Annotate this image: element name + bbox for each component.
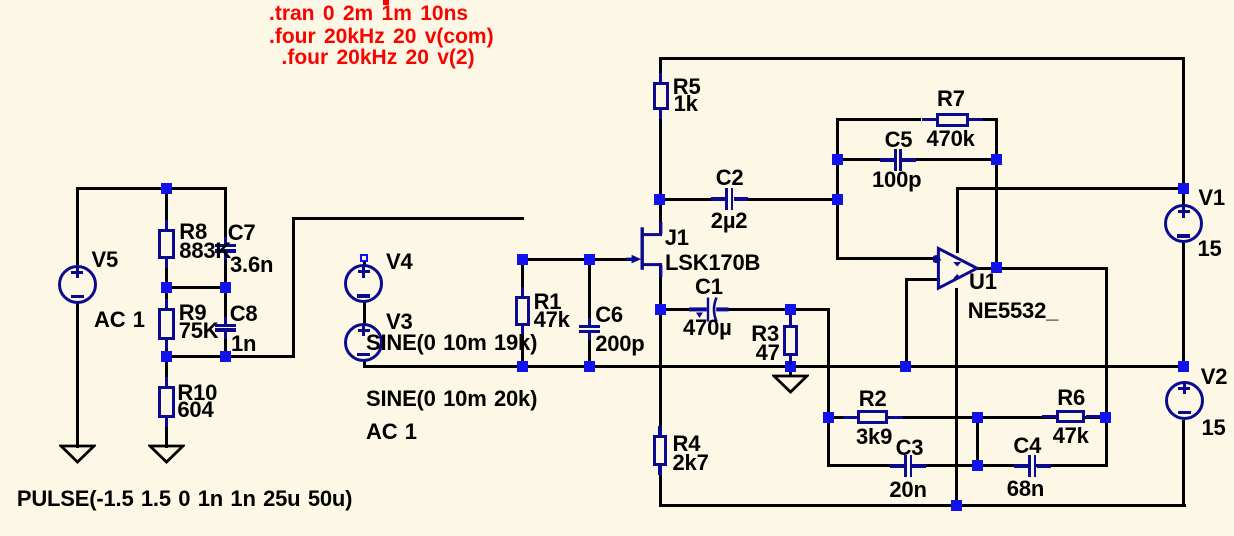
- resistor R8: [165, 220, 168, 229]
- label R3 value: [756, 342, 780, 364]
- label C7 name: [228, 222, 256, 244]
- wire top supply rail: [659, 57, 1185, 60]
- label C8 name: [230, 303, 258, 325]
- voltage source V4: [344, 264, 383, 303]
- voltage source V5 circle: [58, 265, 97, 304]
- wire ground mid rail: [363, 365, 1186, 368]
- capacitor C1 polarized: [689, 295, 733, 325]
- label U1 name: [969, 271, 997, 293]
- label V3 ac value: [366, 421, 417, 443]
- wire rail to C7: [224, 187, 227, 245]
- wire C2 row right: [734, 198, 839, 201]
- node C3-link: [972, 460, 983, 471]
- node R2 left: [823, 412, 834, 423]
- wire C1 row left: [659, 308, 693, 311]
- label C3 value: [889, 479, 926, 501]
- wire opamp V- pin drop: [955, 288, 958, 508]
- node R8-R9 left: [161, 282, 172, 293]
- wire input riser: [292, 217, 295, 359]
- label R8 value: [179, 240, 231, 262]
- wire R6 row right: [1085, 416, 1108, 419]
- node C7-C8 right: [220, 282, 231, 293]
- wire opamp output row: [977, 267, 1108, 270]
- wire feedback left vertical: [836, 118, 839, 260]
- wire C7 to C8: [224, 253, 227, 325]
- voltage source V3: [344, 323, 383, 362]
- node drain-C2: [654, 194, 665, 205]
- label C5 value: [872, 169, 921, 191]
- voltage source V1: [1164, 204, 1203, 243]
- V4 open terminal marker: [360, 254, 368, 262]
- node source-C1: [655, 304, 666, 315]
- resistor R7: [922, 118, 936, 121]
- label V5 pulse value: [17, 488, 352, 510]
- label R10 name: [177, 382, 217, 404]
- voltage source V2: [1165, 381, 1204, 420]
- ground (R10): [148, 444, 185, 466]
- wire inverting input row: [836, 257, 937, 260]
- wire R10 to ground: [165, 417, 168, 448]
- label V1 value: [1198, 238, 1222, 260]
- label R3 name: [751, 323, 779, 345]
- resistor R2: [843, 416, 857, 419]
- wire C8 to junction row: [224, 332, 227, 359]
- node gate row R1: [517, 254, 528, 265]
- label C1 value: [683, 317, 732, 339]
- label R5 value: [674, 93, 698, 115]
- label C5 name: [885, 129, 913, 151]
- wire C5 row left: [836, 158, 894, 161]
- resistor R6: [1042, 415, 1056, 418]
- node R6 right: [1100, 412, 1111, 423]
- capacitor C6: [588, 318, 591, 325]
- node Vminus bottom rail: [951, 500, 962, 511]
- label V2 value: [1202, 417, 1226, 439]
- node opamp output: [991, 262, 1002, 273]
- label U1 value: [968, 300, 1058, 322]
- wire gate node to R1: [521, 258, 524, 298]
- node C5 right: [991, 154, 1002, 165]
- label C4 value: [1007, 478, 1044, 500]
- label R5 name: [673, 76, 701, 98]
- capacitor C2: [711, 197, 725, 201]
- label R2 name: [859, 388, 887, 410]
- label C8 value: [231, 333, 256, 355]
- node C1-R3: [785, 304, 796, 315]
- wire R8 to R9: [165, 259, 168, 310]
- label R6 name: [1057, 387, 1085, 409]
- label V5 value: [94, 309, 145, 331]
- wire C3 row left: [827, 464, 903, 467]
- node R9-R10 left: [161, 351, 172, 362]
- label C3 name: [896, 437, 924, 459]
- wire gate row: [521, 258, 633, 261]
- node R2-link: [972, 412, 983, 423]
- label C6 name: [595, 304, 623, 326]
- wire C6 to rail: [588, 333, 591, 369]
- label C7 value: [230, 254, 273, 276]
- label C6 value: [595, 333, 644, 355]
- wire top rail to R5: [659, 57, 662, 83]
- wire V2 to bottom rail: [1182, 420, 1185, 508]
- label J1 value: [665, 252, 760, 274]
- wire R9 to R10: [165, 339, 168, 388]
- wire R5 to drain node: [659, 109, 662, 201]
- spice directive .tran: [269, 3, 468, 24]
- wire C3-C4 row mid: [913, 464, 1029, 467]
- wire C1 node to R3: [789, 308, 792, 327]
- label R6 value: [1053, 425, 1089, 447]
- wire R3 to rail: [789, 355, 792, 368]
- wire R2 row mid: [887, 416, 1058, 419]
- capacitor C4: [1014, 464, 1028, 468]
- label V4 name: [386, 251, 413, 273]
- node gate row C6: [584, 254, 595, 265]
- wire R2 row left: [827, 416, 859, 419]
- wire V3 to rail: [363, 361, 366, 369]
- wire V1 top: [1182, 57, 1185, 206]
- wire input top run: [292, 217, 524, 220]
- node rail-R8: [161, 183, 172, 194]
- label C1 name: [695, 276, 723, 298]
- spice directive clipped fragment: [383, 0, 389, 5]
- wire rail to R8: [165, 187, 168, 231]
- wire noninverting riser: [905, 278, 908, 368]
- wire feedback top left: [836, 118, 921, 121]
- label V3 value: [366, 332, 537, 354]
- node R3 ground: [785, 361, 796, 372]
- wire R2-C3 link: [976, 416, 979, 468]
- label R4 name: [673, 433, 701, 455]
- wire V4 top stub: [363, 262, 366, 267]
- label R9 name: [179, 302, 207, 324]
- wire feedback right vertical: [995, 118, 998, 270]
- wire C5 row right: [902, 158, 998, 161]
- node C5 left: [832, 154, 843, 165]
- node V1-V2: [1178, 361, 1189, 372]
- resistor R5: [659, 73, 662, 82]
- wire junction row R8-C7: [165, 286, 228, 289]
- spice directive .four v(2): [282, 47, 475, 68]
- wire V4 to V3: [363, 302, 366, 324]
- node noninv rail: [900, 361, 911, 372]
- wire R4 to bottom rail: [659, 465, 662, 507]
- node rail R1: [517, 361, 528, 372]
- resistor R3: [789, 316, 792, 325]
- ground (V5): [59, 444, 96, 466]
- label C2 name: [716, 167, 744, 189]
- resistor R9: [165, 299, 168, 308]
- label V4 value: [366, 388, 537, 410]
- node rail C6: [584, 361, 595, 372]
- wire V1 to V2 node: [1182, 242, 1185, 368]
- resistor R4: [658, 426, 661, 435]
- wire output riser: [1105, 267, 1108, 468]
- wire C1 to C3 riser: [827, 308, 830, 467]
- resistor R1: [521, 287, 524, 296]
- wire gate node to C6: [588, 258, 591, 326]
- label R7 name: [937, 88, 965, 110]
- label V2 name: [1201, 366, 1228, 388]
- label C4 name: [1013, 435, 1041, 457]
- wire V+ supply row: [956, 187, 1185, 190]
- wire V5 top rail: [76, 187, 228, 190]
- label C2 value: [711, 210, 748, 232]
- wire V5 to ground: [76, 303, 79, 448]
- capacitor C8: [224, 317, 227, 324]
- label R8 name: [179, 221, 207, 243]
- wire feedback top right: [983, 118, 998, 121]
- spice directive .four v(com): [269, 26, 494, 47]
- wire J1 source down: [659, 263, 662, 311]
- label V1 name: [1198, 187, 1225, 209]
- capacitor C3: [890, 464, 904, 468]
- wire drain node to J1: [659, 198, 662, 236]
- wire junction row R9-C8 to riser: [165, 355, 295, 358]
- label R9 value: [179, 320, 219, 342]
- wire noninverting input row: [905, 278, 940, 281]
- node C8 junction: [220, 351, 231, 362]
- label R4 value: [673, 452, 709, 474]
- op-amp U1: [933, 243, 985, 295]
- label V5 name: [92, 249, 119, 271]
- node V1 top: [1178, 183, 1189, 194]
- capacitor C7: [224, 237, 227, 244]
- wire C2 row left: [659, 198, 725, 201]
- node C2-feedback: [832, 194, 843, 205]
- wire rail to ground 3: [789, 367, 792, 378]
- resistor R10: [165, 377, 168, 386]
- wire C1 row right: [727, 308, 830, 311]
- wire C4 row right: [1036, 464, 1107, 467]
- label R10 value: [177, 399, 213, 421]
- ground (R3): [772, 374, 809, 396]
- wire opamp V+ pin riser: [956, 187, 959, 253]
- label V3 name: [386, 311, 413, 333]
- label J1 name: [665, 227, 689, 249]
- label R7 value: [927, 128, 975, 150]
- wire bottom rail: [659, 504, 1186, 507]
- label R1 name: [534, 291, 562, 313]
- transistor J1 JFET: [626, 218, 668, 278]
- wire V5 to top rail: [76, 187, 79, 266]
- label R2 value: [856, 426, 892, 448]
- wire source node to R4: [659, 308, 662, 436]
- capacitor C5: [880, 158, 894, 162]
- label R1 value: [534, 309, 570, 331]
- wire R1 to rail: [521, 325, 524, 368]
